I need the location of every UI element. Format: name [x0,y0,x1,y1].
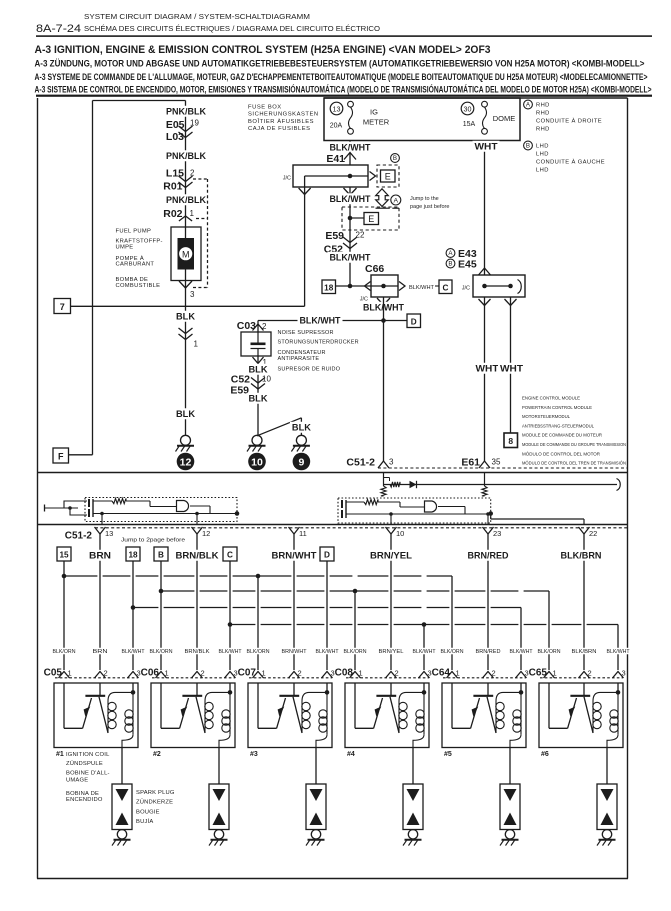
svg-text:BRN/WHT: BRN/WHT [272,551,318,561]
svg-text:IGNITION COIL: IGNITION COIL [66,752,110,758]
svg-text:UMAGE: UMAGE [66,778,88,784]
svg-text:BLK/WHT: BLK/WHT [300,316,341,326]
svg-text:MOTORSTEUERMODUL: MOTORSTEUERMODUL [522,414,570,420]
svg-text:3: 3 [389,458,394,467]
svg-text:BLK: BLK [176,409,196,419]
svg-text:CONDENSATEUR: CONDENSATEUR [278,350,326,356]
svg-text:MODULE DE COMMANDE DU MOTEUR: MODULE DE COMMANDE DU MOTEUR [522,433,602,439]
svg-text:BLK/ORN: BLK/ORN [344,649,367,655]
svg-text:10: 10 [251,456,263,468]
svg-text:BOBINE D'ALL-: BOBINE D'ALL- [66,771,110,777]
svg-text:7: 7 [60,302,65,312]
svg-text:BRN/RED: BRN/RED [468,551,509,561]
svg-text:B: B [393,155,397,162]
svg-text:#5: #5 [444,751,452,758]
svg-text:#4: #4 [347,751,355,758]
svg-text:BLK: BLK [292,423,312,433]
svg-text:BOUGIE: BOUGIE [136,810,160,816]
svg-text:BLK/WHT: BLK/WHT [330,253,371,263]
svg-text:BUJÍA: BUJÍA [136,818,153,825]
svg-text:BLK/BRN: BLK/BRN [561,551,602,561]
svg-text:L03: L03 [166,131,184,143]
svg-text:C66: C66 [365,263,384,275]
svg-text:MÓDULO DE CONTROL DEL TREN DE: MÓDULO DE CONTROL DEL TREN DE TRANSMISIÓ… [522,460,626,467]
svg-text:BLK/ORN: BLK/ORN [247,649,270,655]
svg-text:Jump to 2page before: Jump to 2page before [121,538,185,544]
svg-text:B: B [448,261,452,268]
svg-text:R01: R01 [163,181,182,193]
svg-text:A-3 ZÜNDUNG, MOTOR UND ABGASE: A-3 ZÜNDUNG, MOTOR UND ABGASE UND AUTOMA… [35,59,645,70]
svg-text:BRN/BLK: BRN/BLK [185,649,210,655]
svg-text:BLK/BRN: BLK/BRN [572,649,597,655]
svg-text:1: 1 [190,209,195,218]
svg-text:NOISE SUPRESSOR: NOISE SUPRESSOR [278,330,334,336]
svg-text:WHT: WHT [476,364,500,374]
svg-text:ZÜNDSPULE: ZÜNDSPULE [66,760,103,767]
svg-text:BRN: BRN [93,649,108,655]
svg-text:#1: #1 [56,751,64,758]
svg-text:9: 9 [298,456,304,468]
svg-text:1: 1 [194,340,199,349]
svg-text:10: 10 [396,529,404,538]
svg-text:BLK/ORN: BLK/ORN [538,649,561,655]
svg-text:LHD: LHD [536,152,549,158]
svg-text:RHD: RHD [536,103,550,109]
svg-text:BLK/WHT: BLK/WHT [409,285,434,291]
svg-text:ENCENDIDO: ENCENDIDO [66,797,103,803]
svg-text:ANTRIEBSSTRANG-STEUERMODUL: ANTRIEBSSTRANG-STEUERMODUL [522,423,594,429]
svg-text:BLK: BLK [249,394,269,404]
svg-text:B: B [526,143,530,150]
svg-text:E59: E59 [325,230,344,242]
svg-text:BLK/WHT: BLK/WHT [413,649,437,655]
svg-text:12: 12 [180,456,192,468]
svg-text:SCHÉMA DES CIRCUITS ÉLECTRIQUE: SCHÉMA DES CIRCUITS ÉLECTRIQUES / DIAGRA… [84,24,380,33]
svg-text:BLK: BLK [249,365,269,375]
svg-text:22: 22 [589,529,597,538]
svg-text:13: 13 [333,104,341,113]
svg-text:#3: #3 [250,751,258,758]
svg-text:FUEL PUMP: FUEL PUMP [116,229,152,235]
svg-text:BRN/YEL: BRN/YEL [379,649,404,655]
svg-text:WHT: WHT [475,142,499,152]
svg-text:BLK/WHT: BLK/WHT [607,649,631,655]
svg-text:3: 3 [190,290,195,299]
svg-text:FUSE BOX: FUSE BOX [248,105,282,111]
svg-text:WHT: WHT [500,364,524,374]
svg-text:SICHERUNGSKASTEN: SICHERUNGSKASTEN [248,112,319,118]
svg-text:CARBURANT: CARBURANT [116,262,155,268]
svg-text:ZÜNDKERZE: ZÜNDKERZE [136,799,173,806]
svg-text:C: C [227,551,233,560]
svg-text:A: A [394,197,399,204]
svg-text:BRN/BLK: BRN/BLK [176,551,220,561]
svg-text:C51-2: C51-2 [65,531,93,542]
svg-text:CONDUITE À DROITE: CONDUITE À DROITE [536,118,602,125]
svg-text:J/C: J/C [283,176,291,182]
svg-text:#2: #2 [153,751,161,758]
svg-text:8A-7-24: 8A-7-24 [36,23,81,35]
svg-text:B: B [158,551,164,560]
svg-text:MODULE DE COMMANDE DU GROUPE T: MODULE DE COMMANDE DU GROUPE TRANSMISSIO… [522,442,626,448]
svg-text:D: D [324,551,330,560]
svg-text:BLK/WHT: BLK/WHT [122,649,146,655]
svg-text:15: 15 [59,551,69,560]
svg-text:BLK/WHT: BLK/WHT [219,649,243,655]
svg-text:STÖRUNGSUNTERDRÜCKER: STÖRUNGSUNTERDRÜCKER [278,339,359,346]
svg-text:SUPRESOR DE RUIDO: SUPRESOR DE RUIDO [278,367,341,373]
svg-text:E45: E45 [458,259,477,271]
svg-text:35: 35 [492,458,501,467]
svg-text:IG: IG [370,108,378,117]
svg-text:A-3 IGNITION, ENGINE & EMISSIO: A-3 IGNITION, ENGINE & EMISSION CONTROL … [35,44,491,56]
svg-text:PNK/BLK: PNK/BLK [166,107,206,117]
svg-text:BRN/RED: BRN/RED [476,649,501,655]
svg-text:8: 8 [508,436,513,446]
svg-text:E: E [385,172,391,182]
svg-text:F: F [58,451,64,461]
svg-text:CAJA DE FUSIBLES: CAJA DE FUSIBLES [248,126,311,132]
svg-text:BLK/WHT: BLK/WHT [330,194,371,204]
svg-text:page just before: page just before [410,204,449,210]
svg-text:BLK/WHT: BLK/WHT [510,649,534,655]
svg-text:DOME: DOME [493,114,516,123]
svg-text:A-3 SYSTEME DE COMMANDE DE L'A: A-3 SYSTEME DE COMMANDE DE L'ALLUMAGE, M… [35,72,648,83]
svg-text:13: 13 [105,529,113,538]
svg-text:20A: 20A [330,123,343,130]
svg-text:LHD: LHD [536,144,549,150]
svg-text:LHD: LHD [536,168,549,174]
svg-text:UMPE: UMPE [116,244,134,250]
svg-text:CONDUITE À GAUCHE: CONDUITE À GAUCHE [536,159,605,166]
svg-text:E41: E41 [326,153,345,165]
svg-text:BRN/YEL: BRN/YEL [370,551,413,561]
svg-text:ANTIPARASITE: ANTIPARASITE [278,356,320,362]
svg-text:BLK: BLK [176,312,196,322]
svg-text:23: 23 [493,529,501,538]
svg-text:D: D [411,318,417,327]
svg-text:SYSTEM CIRCUIT DIAGRAM / SYSTE: SYSTEM CIRCUIT DIAGRAM / SYSTEM-SCHALTDI… [84,12,310,21]
svg-text:18: 18 [324,284,334,293]
svg-text:BRN/WHT: BRN/WHT [282,649,308,655]
svg-text:C51-2: C51-2 [346,457,375,469]
svg-text:30: 30 [464,104,472,113]
svg-text:15A: 15A [463,121,476,128]
svg-text:E61: E61 [461,457,480,469]
svg-text:12: 12 [202,529,210,538]
svg-text:BLK/ORN: BLK/ORN [53,649,76,655]
svg-text:BLK/ORN: BLK/ORN [150,649,173,655]
svg-text:PNK/BLK: PNK/BLK [166,151,206,161]
svg-text:SPARK PLUG: SPARK PLUG [136,790,175,796]
svg-text:Jump to the: Jump to the [410,196,439,202]
svg-text:RHD: RHD [536,127,550,133]
svg-text:BLK/WHT: BLK/WHT [316,649,340,655]
svg-text:R02: R02 [163,208,182,220]
svg-text:E: E [368,214,374,224]
svg-text:POWERTRAIN CONTROL MODULE: POWERTRAIN CONTROL MODULE [522,405,592,411]
svg-text:11: 11 [299,529,307,538]
svg-text:BOÎTIER ÀFUSIBLES: BOÎTIER ÀFUSIBLES [248,118,314,125]
svg-text:ENGINE CONTROL MODULE: ENGINE CONTROL MODULE [522,396,580,402]
svg-text:BRN: BRN [89,551,111,561]
svg-text:#6: #6 [541,751,549,758]
svg-text:22: 22 [356,231,365,240]
svg-text:E59: E59 [230,385,249,397]
svg-text:C: C [443,284,449,293]
svg-text:A-3 SISTEMA DE CONTROL DE ENCE: A-3 SISTEMA DE CONTROL DE ENCENDIDO, MOT… [35,83,652,95]
svg-text:METER: METER [363,118,390,127]
svg-text:J/C: J/C [462,286,470,292]
svg-text:COMBUSTIBLE: COMBUSTIBLE [116,283,161,289]
svg-text:PNK/BLK: PNK/BLK [166,195,206,205]
svg-text:RHD: RHD [536,111,550,117]
svg-text:18: 18 [128,551,138,560]
svg-text:BLK/ORN: BLK/ORN [441,649,464,655]
svg-text:M: M [182,249,190,259]
svg-text:BLK/WHT: BLK/WHT [330,143,371,153]
svg-text:MÓDULO DE CONTROL DEL MOTOR: MÓDULO DE CONTROL DEL MOTOR [522,450,600,457]
